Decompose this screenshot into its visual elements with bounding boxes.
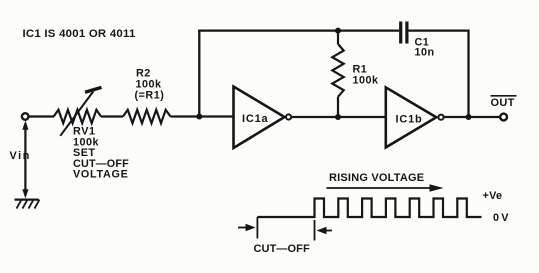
svg-text:IC1b: IC1b: [396, 113, 423, 125]
potentiometer RV1 zigzag: [54, 110, 101, 123]
node waveform trace: [257, 199, 481, 218]
wire feedback top horizontal to C1: [198, 29, 399, 31]
node OUT terminal: [500, 114, 507, 121]
value label C1 10n: [415, 36, 435, 58]
op-amp inverter IC1b: [386, 87, 444, 147]
wire rising voltage arrow: [327, 184, 444, 191]
resistor R1 zigzag: [332, 44, 343, 97]
node cut-off left tick: [256, 217, 258, 239]
wire cut-off right arrow: [317, 227, 333, 235]
wire R1 top stub: [337, 31, 339, 44]
note: CUT-OFF dimension label: [254, 243, 310, 255]
svg-text:+Ve: +Ve: [483, 190, 503, 202]
node R1 bottom junction: [335, 114, 341, 120]
node Vin input terminal: [22, 113, 29, 120]
wire RV1 to R2: [101, 115, 123, 117]
wire R2 to IC1a input: [171, 115, 234, 117]
svg-text:VOLTAGE: VOLTAGE: [73, 169, 128, 181]
wire Vin double arrow: [22, 121, 28, 199]
svg-text:10n: 10n: [415, 47, 435, 59]
value label R1 100k: [353, 64, 380, 87]
node output junction: [466, 114, 472, 120]
svg-text:100k: 100k: [353, 75, 380, 87]
wire IC1a output to IC1b input: [292, 116, 386, 118]
svg-text:0V: 0V: [493, 212, 511, 224]
op-amp inverter IC1a: [234, 87, 292, 149]
note: RISING VOLTAGE label: [329, 172, 424, 184]
wire C1 to output corner: [409, 31, 469, 117]
net label Vin: [10, 150, 31, 162]
svg-text:(=R1): (=R1): [135, 89, 165, 101]
node R1 top junction: [335, 28, 341, 34]
potentiometer RV1 wiper arrow: [60, 87, 101, 135]
wire IC1b output to OUT terminal: [444, 116, 500, 118]
resistor R2 zigzag: [123, 110, 171, 123]
ground: [15, 200, 40, 209]
wire input terminal to RV1: [29, 115, 54, 117]
svg-text:OUT: OUT: [491, 97, 515, 109]
net label OUT with overline: [491, 96, 517, 109]
note: IC1 type label: [23, 28, 136, 40]
svg-text:CUT—OFF: CUT—OFF: [254, 243, 310, 255]
node feedback junction: [196, 114, 202, 120]
wire R1 bottom stub: [337, 97, 339, 117]
svg-text:IC1 IS 4001 OR 4011: IC1 IS 4001 OR 4011: [23, 28, 136, 40]
wire feedback vertical: [198, 30, 200, 117]
svg-text:IC1a: IC1a: [242, 113, 269, 125]
svg-text:RISING VOLTAGE: RISING VOLTAGE: [329, 172, 424, 184]
value label RV1 100k SET CUT-OFF VOLTAGE: [73, 126, 129, 181]
svg-text:Vin: Vin: [10, 150, 31, 162]
node cut-off right tick: [314, 220, 316, 241]
capacitor C1: [401, 22, 407, 44]
value label R2 100k (=R1): [135, 68, 165, 102]
net label 0V: [493, 212, 511, 224]
net label +Ve: [483, 190, 503, 202]
wire cut-off left arrow: [238, 224, 256, 232]
